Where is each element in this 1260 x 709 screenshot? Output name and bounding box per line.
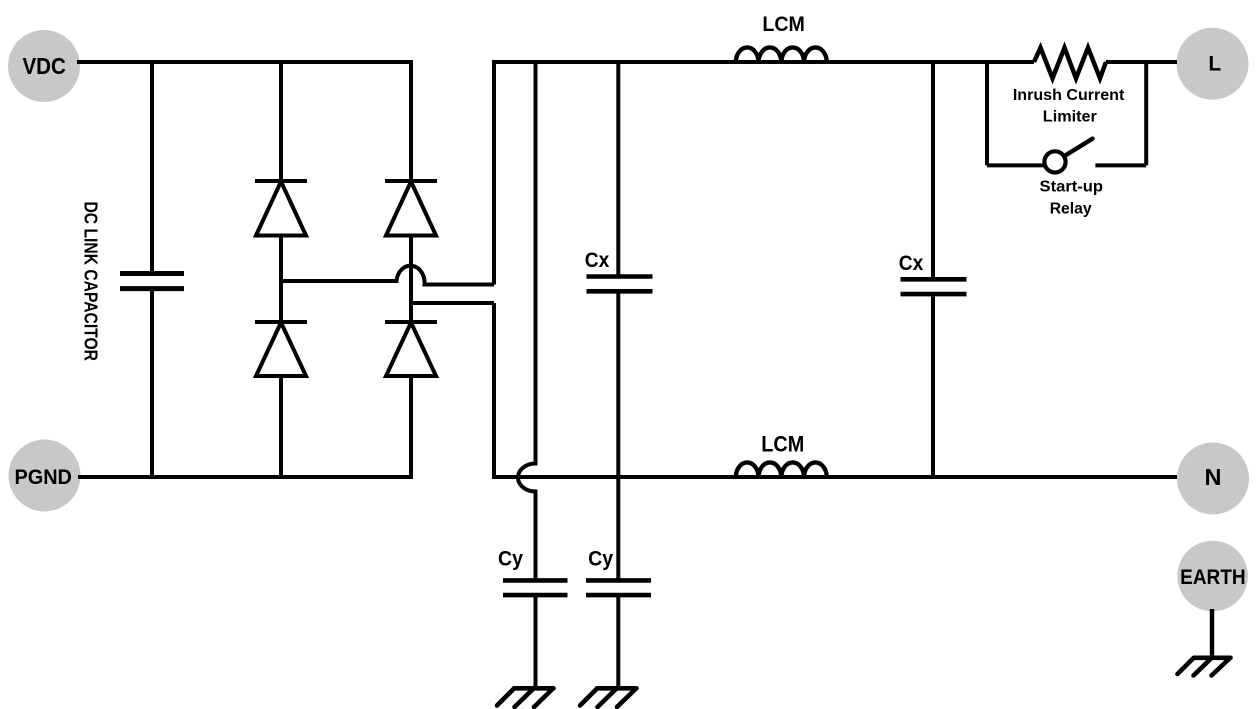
capacitor Cy2 plates — [586, 580, 651, 595]
wire right bridge column top — [409, 60, 413, 181]
wire relay bypass right riser — [1144, 62, 1148, 165]
wire top rail VDC to bridge — [77, 60, 411, 64]
ground symbol EARTH — [1178, 658, 1231, 676]
wire left bridge column top — [279, 62, 283, 181]
relay pivot circle — [1044, 151, 1065, 172]
wire top rail after resistor — [1106, 60, 1177, 64]
capacitor Cy1 plates — [503, 580, 568, 595]
svg-text:LCM: LCM — [762, 12, 805, 36]
wire AC2 from right bridge midpoint — [411, 301, 494, 305]
wire right bridge column bottom — [409, 376, 413, 479]
capacitor DC LINK vertical lead top — [150, 62, 154, 271]
svg-text:Cx: Cx — [585, 248, 610, 272]
svg-text:Inrush Current: Inrush Current — [1013, 87, 1125, 104]
svg-text:Cy: Cy — [588, 548, 613, 571]
wire Cy2 to ground — [616, 597, 620, 687]
svg-text:Cx: Cx — [899, 251, 924, 275]
diode D2 bottom-left — [255, 322, 307, 376]
inductor LCM bottom common-mode choke — [736, 462, 827, 477]
wire left bridge column bottom — [279, 376, 283, 477]
wire left bridge column middle — [279, 236, 283, 323]
ground symbol Cy2 — [580, 688, 637, 707]
wire AC1 riser to top rail — [492, 62, 496, 285]
diode D4 bottom-right — [385, 322, 437, 376]
capacitor Cx2 plates — [901, 279, 967, 294]
wire Cx1/Cy2 column upper — [616, 62, 620, 275]
svg-text:N: N — [1205, 464, 1222, 490]
wire relay bypass right horizontal — [1095, 163, 1146, 167]
svg-text:EARTH: EARTH — [1180, 566, 1246, 589]
diode D1 top-left — [255, 181, 307, 236]
capacitor Cx2 lower lead — [931, 296, 935, 477]
wire relay bypass left drop — [985, 62, 989, 165]
inductor LCM top common-mode choke — [736, 47, 827, 62]
capacitor Cx2 upper lead — [931, 62, 935, 277]
wire N rail filter section — [492, 475, 1177, 479]
wire relay bypass left horizontal — [987, 163, 1045, 167]
terminal EARTH — [1177, 541, 1248, 612]
wire EARTH to ground — [1210, 609, 1214, 658]
capacitor DC LINK vertical lead bottom — [150, 291, 154, 477]
svg-text:Start-up: Start-up — [1040, 179, 1104, 196]
svg-text:L: L — [1208, 53, 1221, 76]
wire top rail filter section — [492, 60, 1034, 64]
terminal L — [1177, 28, 1249, 100]
svg-text:Limiter: Limiter — [1043, 109, 1097, 126]
capacitor Cx1 plates — [587, 277, 653, 292]
svg-text:Cy: Cy — [498, 548, 523, 571]
terminal VDC — [8, 30, 80, 102]
capacitor DC LINK plates — [120, 274, 184, 289]
diode D3 top-right — [385, 181, 437, 236]
wire Cx1 bottom to N rail and Cy2 — [616, 294, 620, 580]
ground symbol Cy1 — [497, 688, 554, 707]
wire PGND rail — [78, 475, 413, 479]
svg-text:PGND: PGND — [14, 465, 72, 489]
terminal N — [1177, 443, 1249, 515]
svg-text:DC LINK CAPACITOR: DC LINK CAPACITOR — [81, 202, 102, 362]
wire Cy1 branch from top rail with hop over N rail — [518, 62, 536, 579]
svg-text:VDC: VDC — [22, 53, 66, 79]
svg-text:LCM: LCM — [761, 431, 804, 456]
wire right bridge column middle — [409, 236, 413, 323]
wire Cy1 to ground — [534, 597, 538, 687]
terminal PGND — [9, 440, 81, 512]
svg-text:Relay: Relay — [1050, 200, 1092, 217]
relay switch arm — [1064, 139, 1093, 157]
wire AC1 from left bridge midpoint with hop over right column — [281, 266, 494, 285]
wire AC2 dropper to N rail — [492, 303, 496, 479]
resistor Inrush Current Limiter — [1034, 48, 1106, 79]
